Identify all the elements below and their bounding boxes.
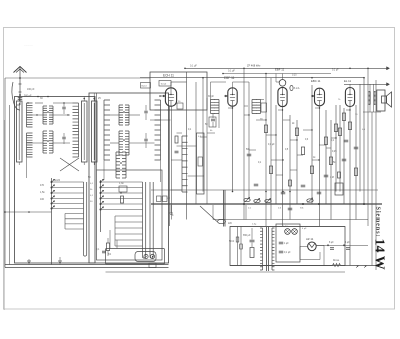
resistor R9 xyxy=(338,172,341,178)
resistor R8 grid leak xyxy=(354,168,357,176)
capacitor C25 650uF xyxy=(250,239,255,241)
wire x203 vertical xyxy=(202,78,204,192)
coil L2 antenna MW xyxy=(27,133,33,157)
wave switch S1 bank b xyxy=(100,180,102,232)
wire double rail y204 xyxy=(151,204,382,206)
resistor R3 in former xyxy=(198,157,203,166)
shield box tuner section 2 xyxy=(89,93,169,263)
wire x271 vertical xyxy=(270,78,272,220)
svg-text:1,3k: 1,3k xyxy=(119,182,124,185)
switch contact S1a-6 xyxy=(51,208,53,210)
wire x344 vertical xyxy=(343,108,345,204)
wire x196 vertical xyxy=(195,82,197,204)
pickup inner jack plate xyxy=(135,252,156,262)
wire pickup leads xyxy=(109,230,111,249)
capacitor C14 IF1 xyxy=(211,118,215,120)
resistor R4 xyxy=(175,136,178,143)
wire IF1 links xyxy=(210,82,212,100)
grid cap arrow V1 xyxy=(160,95,165,97)
svg-text:ECH 11: ECH 11 xyxy=(163,74,174,78)
wire double rail y203 xyxy=(151,202,382,204)
capacitor C17 coupling xyxy=(342,158,347,160)
coil L10 reaction pair xyxy=(116,152,120,178)
node dots block1 xyxy=(37,96,39,98)
wire chassis bus upper xyxy=(5,264,169,266)
resistor R2 xyxy=(121,196,124,203)
switch contact S1b-3 xyxy=(100,192,102,194)
hairpin coil former L11 xyxy=(84,182,87,256)
resistor R16 xyxy=(329,157,332,165)
svg-text:0,1 µF: 0,1 µF xyxy=(332,70,339,72)
resistor R14 xyxy=(310,166,313,174)
capacitor C11 padding xyxy=(119,186,127,192)
capacitor C15 xyxy=(344,139,349,141)
wire output rail xyxy=(344,83,390,85)
resistor R7 xyxy=(338,128,341,136)
capacitor C10 xyxy=(102,250,106,252)
wire tuner block bottom ties xyxy=(103,160,105,180)
wire IF2 secondary tie xyxy=(261,99,265,101)
switch bank S1a lower rungs xyxy=(65,213,84,215)
capacitor C30 trimmer xyxy=(177,103,183,109)
capacitor C28 8uF xyxy=(330,247,334,249)
capacitor C12 on bus xyxy=(149,263,156,268)
capacitor C23 xyxy=(317,191,322,193)
jack J1 xyxy=(144,254,148,258)
band indicator box 1 xyxy=(141,83,151,89)
capacitor C16 xyxy=(354,146,359,148)
wave switch S1 bank a xyxy=(51,178,53,265)
switch contact S1b-6 xyxy=(100,209,102,211)
svg-text:0,1 µF: 0,1 µF xyxy=(268,144,275,146)
IF transformer T2 secondary xyxy=(256,100,261,114)
resistor R12 xyxy=(295,128,298,136)
wire x331 vertical xyxy=(330,120,332,220)
dial lamp La3 6.3V xyxy=(292,229,298,235)
IF transformer T1 primary xyxy=(211,100,216,114)
wire IF1 bottom link xyxy=(207,132,215,134)
node dots coil pairs xyxy=(47,111,49,113)
tube V5 EL11 xyxy=(345,88,354,107)
wire ground rail y212 xyxy=(4,211,52,213)
svg-text:1 M: 1 M xyxy=(330,177,334,179)
svg-text:0,1 µF: 0,1 µF xyxy=(284,252,291,254)
shield box tuner section 1 xyxy=(15,97,96,264)
svg-text:EBF 11: EBF 11 xyxy=(275,68,285,72)
trimmer C6 xyxy=(62,136,66,138)
svg-text:Tonab: Tonab xyxy=(161,84,168,86)
node top rail junctions xyxy=(222,73,224,75)
wire x244 vertical xyxy=(243,68,245,219)
arrow terminal top right xyxy=(387,67,390,70)
resistor R11 xyxy=(269,166,272,174)
svg-text:650 µF: 650 µF xyxy=(243,234,251,237)
wire x356 vertical xyxy=(355,105,357,220)
wire x368 vertical xyxy=(367,68,369,226)
resistor R13 xyxy=(301,147,304,155)
node B+ junction xyxy=(327,244,329,246)
switch contact S1a-2 xyxy=(51,187,53,189)
mains transformer T4 core xyxy=(266,227,268,271)
coil L6 oscillator section 2 xyxy=(104,100,110,160)
node dots mid cluster xyxy=(248,114,249,115)
wire x276 vertical xyxy=(275,105,277,204)
wire x186 vertical xyxy=(186,72,188,220)
grid cap arrow V4 xyxy=(311,95,314,97)
tuning slug box T2 xyxy=(261,103,267,112)
capacitor C27 0.1uF xyxy=(279,250,284,252)
wire V4 stem down xyxy=(319,106,321,226)
switch contact S1b-4 xyxy=(100,198,102,200)
coil L8 padder pair xyxy=(119,105,123,125)
tuning slug box T1 xyxy=(209,117,216,127)
capacitor C24 xyxy=(324,174,329,176)
tube V3 EBF11 xyxy=(278,87,287,106)
wire x266 vertical xyxy=(265,74,267,227)
heater winding box xyxy=(276,224,300,262)
capacitor C20 xyxy=(281,191,286,193)
resistor R15 xyxy=(324,137,327,145)
wire speaker leads xyxy=(369,84,371,91)
wire cap stubs to box top xyxy=(18,97,20,102)
svg-text:EBF 11: EBF 11 xyxy=(224,76,235,80)
grid cap arrow V2 xyxy=(224,95,228,97)
wire x364 vertical xyxy=(363,78,365,204)
node tube stem dots xyxy=(282,109,283,110)
shield box oscillator sub-section xyxy=(97,170,163,260)
svg-text:470: 470 xyxy=(40,184,45,187)
wire x326 vertical xyxy=(325,110,327,204)
wire tube bottom stubs xyxy=(167,109,170,111)
wire left vertical bus xyxy=(4,78,6,268)
wire rectifier leads xyxy=(300,245,308,247)
loudspeaker LS1 xyxy=(382,96,387,103)
capacitor C21 xyxy=(288,207,293,209)
svg-text:30 pF: 30 pF xyxy=(208,96,214,98)
antenna lead-in wire xyxy=(12,82,20,110)
tube V4 EBC11 xyxy=(315,88,325,106)
switch contact S1a-5 xyxy=(51,203,53,205)
svg-text:8 µF: 8 µF xyxy=(329,242,334,244)
wire B+ rail xyxy=(316,244,368,246)
wire chassis bus lower xyxy=(5,267,169,269)
trimmer C5 xyxy=(62,106,66,108)
wire block1 bottom diagonals xyxy=(60,158,79,171)
svg-text:Band: Band xyxy=(142,85,148,87)
svg-text:EL 11: EL 11 xyxy=(344,79,351,83)
wire mixer links xyxy=(150,119,171,121)
svg-text:6 mA: 6 mA xyxy=(294,87,300,90)
IF transformer T1 secondary xyxy=(215,100,220,114)
wire x297 vertical xyxy=(296,120,298,204)
coil L5 coupling pair xyxy=(43,131,47,153)
node junction left rail xyxy=(4,211,6,213)
volume pot P1 xyxy=(244,198,250,201)
wire PSU box bottom xyxy=(106,271,346,273)
mains transformer T4 secondary xyxy=(272,228,274,270)
wire x340 vertical xyxy=(339,105,341,192)
wire left inner vertical xyxy=(9,105,11,265)
svg-text:0,25: 0,25 xyxy=(292,75,297,77)
svg-text:4 µF: 4 µF xyxy=(345,242,350,244)
terminal box right xyxy=(335,183,343,195)
wire x290 vertical xyxy=(289,115,291,220)
output transformer T3 secondary xyxy=(374,92,376,105)
wire rectifier cathode return xyxy=(299,246,301,259)
jack J2 xyxy=(150,254,154,258)
wire x312 vertical xyxy=(311,85,313,204)
switch contact S1b-5 xyxy=(100,203,102,205)
resistor R6 xyxy=(348,122,351,130)
resistor R10 xyxy=(264,125,267,133)
wire V1 cathode down xyxy=(169,106,171,226)
ground symbol mid xyxy=(58,260,62,262)
coil L7 oscillator section 2 xyxy=(155,100,161,160)
wire rail y219 xyxy=(213,219,368,221)
wire V5 anode top xyxy=(349,84,351,87)
diode top cap V3 xyxy=(279,80,286,87)
trimmer C8 xyxy=(144,138,148,140)
hairpin coil former L13 xyxy=(150,182,153,258)
tuning indicator lamp xyxy=(290,85,293,90)
node dots top rails xyxy=(202,77,204,79)
svg-text:160 pF: 160 pF xyxy=(27,88,35,91)
dial lamp La2 6.3V xyxy=(285,229,291,235)
svg-text:Siemens:: Siemens: xyxy=(375,207,382,238)
tube V1 ECH11 xyxy=(165,88,176,106)
wire x376 vertical xyxy=(375,80,377,270)
band indicator box 2 xyxy=(159,81,171,87)
svg-text:50 Ω: 50 Ω xyxy=(229,240,234,243)
tube V2 EBF11 xyxy=(228,88,237,106)
capacitor C29 4uF xyxy=(346,247,350,249)
variable capacitor C2 gang plate xyxy=(17,101,23,162)
svg-text:2x20: 2x20 xyxy=(55,180,61,182)
svg-text:0,1 µF: 0,1 µF xyxy=(190,65,197,68)
coil L3 antenna KW xyxy=(73,103,79,157)
resistor R1 50k xyxy=(106,243,109,251)
wire V5 stem down xyxy=(349,107,351,266)
svg-text:1,5k: 1,5k xyxy=(40,191,45,194)
wire AVC rail left xyxy=(5,77,150,79)
resistor R5 xyxy=(342,113,345,121)
wire x336 vertical xyxy=(335,105,337,192)
svg-text:0,1 µF: 0,1 µF xyxy=(228,70,235,73)
capacitor C19 xyxy=(254,183,259,185)
wire tuner internal links xyxy=(27,114,44,116)
coil L4 coupling pair xyxy=(43,106,47,124)
switch contact S1b-2 xyxy=(100,187,102,189)
wire x249 vertical xyxy=(248,82,250,199)
wire V1 anode to IF1 xyxy=(170,82,172,88)
switch contact S1b-1 xyxy=(100,181,102,183)
pot P3 xyxy=(265,199,271,202)
wire AVC top rail xyxy=(140,77,364,79)
wire mains vertical b xyxy=(240,227,242,266)
capacitor C26 1uF xyxy=(279,241,284,243)
capacitor C22 xyxy=(301,184,306,186)
svg-text:AZ 11: AZ 11 xyxy=(306,237,314,241)
shield box mixer stage xyxy=(150,72,207,110)
capacitor C13 xyxy=(175,150,179,152)
svg-text:ZF 468 kHz: ZF 468 kHz xyxy=(247,64,261,68)
small box rail left b xyxy=(163,196,168,202)
wire tie segments mid cluster xyxy=(244,114,249,116)
dial lamp La1 xyxy=(218,219,226,223)
svg-text:~~~~~: ~~~~~ xyxy=(24,43,33,47)
wire x207 vertical xyxy=(206,98,208,204)
wire x360 vertical xyxy=(359,84,361,191)
switch bank S1b lower rungs xyxy=(115,215,143,217)
output transformer T3 primary xyxy=(369,92,371,105)
variable capacitor C4 gang plate xyxy=(92,101,98,162)
svg-text:4 µF: 4 µF xyxy=(302,228,307,230)
svg-text:EBC 11: EBC 11 xyxy=(311,79,321,83)
wire PSU bottom bus xyxy=(230,265,333,267)
wire diagonal to dial lamp xyxy=(200,206,217,222)
ground symbol left xyxy=(27,260,31,262)
faint scan ghost marks top margin xyxy=(24,34,130,42)
switch contact S1a-1 xyxy=(51,181,53,183)
hairpin coil former L12 xyxy=(143,182,146,258)
shield former L15 xyxy=(197,133,205,194)
antenna A1 xyxy=(14,67,27,73)
svg-text:100: 100 xyxy=(40,198,45,201)
svg-text:500 pF: 500 pF xyxy=(24,95,32,98)
IF transformer T2 primary xyxy=(252,100,257,114)
svg-text:14 W: 14 W xyxy=(372,239,387,270)
small box rail left a xyxy=(157,196,162,202)
coil L9 padder pair xyxy=(119,131,123,155)
capacitor C1 200pF xyxy=(18,97,23,99)
wire V3 stem down xyxy=(282,107,284,226)
wire block2 inner edge xyxy=(96,93,98,170)
node junction dots mid xyxy=(265,191,267,193)
wire x372 vertical xyxy=(371,112,373,266)
svg-text:TA: TA xyxy=(108,252,111,256)
pot P4 xyxy=(307,199,313,202)
svg-text:2,5µ: 2,5µ xyxy=(252,224,257,226)
capacitor C18 xyxy=(247,153,252,155)
arrow terminal output rail xyxy=(387,83,390,86)
wire V2 stem down xyxy=(232,106,234,191)
variable capacitor C3 gang plate xyxy=(82,101,88,162)
wire V2 anode top xyxy=(232,82,234,88)
mains transformer T4 primary xyxy=(260,228,262,270)
svg-text:0,25: 0,25 xyxy=(332,151,337,153)
trimmer C7 xyxy=(144,110,148,112)
wire tube3 top tie xyxy=(275,74,277,83)
ground stub y213 xyxy=(170,205,172,213)
wire AF rail y191 xyxy=(151,189,378,191)
transformer T3 frame xyxy=(377,90,385,111)
svg-text:6,3 V: 6,3 V xyxy=(283,226,289,228)
coil L1 antenna LW xyxy=(27,103,33,127)
switch contact S1a-4 xyxy=(51,198,53,200)
PSU enclosure box xyxy=(230,227,345,266)
wire screen rail xyxy=(223,73,331,75)
wire x246 drop xyxy=(245,205,247,220)
wire HT rail top xyxy=(185,67,390,69)
resistor R18 xyxy=(289,180,292,186)
resistor R20 1k xyxy=(250,248,254,258)
mains terminal arrows xyxy=(356,266,359,269)
wire antenna to coil block xyxy=(17,104,21,106)
svg-text:1 µF: 1 µF xyxy=(284,243,289,245)
rectifier tube V6 AZ11 xyxy=(308,242,317,251)
wire PSU top rail y226 xyxy=(230,226,345,228)
tone pot P2 xyxy=(254,199,260,202)
shielded cable pair xyxy=(223,190,225,227)
wire osc internal links xyxy=(110,114,119,116)
svg-text:Dross.: Dross. xyxy=(333,259,340,262)
switch contact S1a-3 xyxy=(51,192,53,194)
wire mains vertical a xyxy=(237,227,239,266)
resistor R17 xyxy=(334,124,337,132)
pickup socket box TA xyxy=(106,249,165,265)
oscillator coil L14 xyxy=(182,136,188,192)
